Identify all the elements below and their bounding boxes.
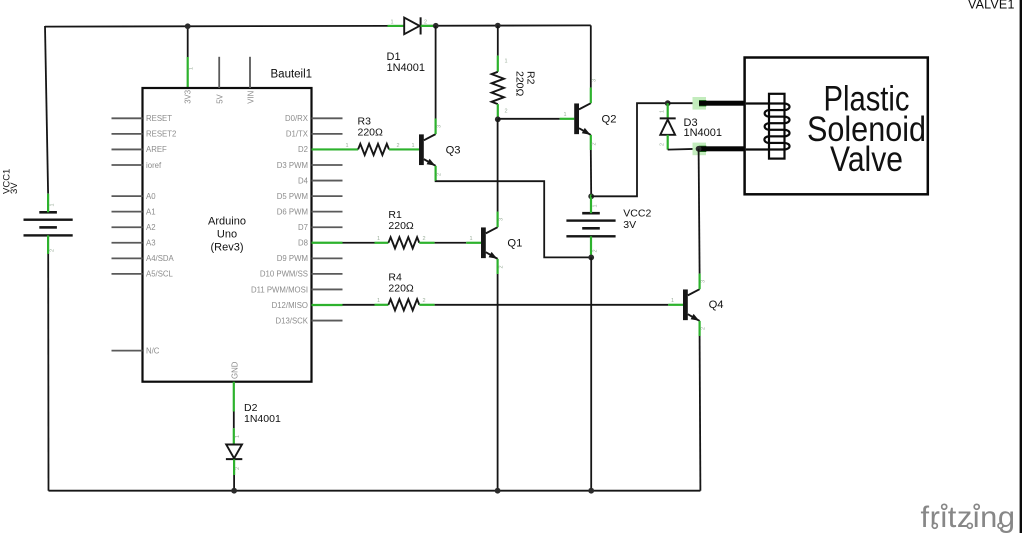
wire top rail to R2 bbox=[497, 26, 499, 56]
pin A1 stub bbox=[112, 211, 143, 213]
svg-text:RESET2: RESET2 bbox=[146, 130, 176, 139]
svg-text:1N4001: 1N4001 bbox=[387, 62, 426, 74]
wire Q2 base from junction bbox=[498, 118, 560, 120]
pin D7 stub bbox=[312, 226, 343, 228]
pin GND leg bbox=[233, 382, 235, 412]
svg-text:2: 2 bbox=[423, 298, 426, 304]
svg-text:3: 3 bbox=[499, 218, 505, 221]
diode D3 leg2 bbox=[667, 135, 669, 150]
node Q1 emitter / ground junction bbox=[495, 488, 501, 494]
svg-text:3: 3 bbox=[437, 125, 443, 128]
svg-text:A0: A0 bbox=[146, 192, 156, 201]
svg-text:A4/SDA: A4/SDA bbox=[146, 254, 175, 263]
wire D2 to ground rail bbox=[233, 475, 235, 491]
wire D12 to R4 bbox=[343, 304, 375, 306]
valve terminal bar 2 bbox=[699, 146, 745, 151]
pin A2 stub bbox=[112, 226, 143, 228]
svg-text:ioref: ioref bbox=[146, 161, 162, 170]
IC Bauteil1 Arduino Uno (Rev3) box bbox=[143, 88, 312, 382]
pin ioref stub bbox=[112, 164, 143, 166]
svg-text:5V: 5V bbox=[216, 93, 225, 103]
valve terminal pad 2 bbox=[693, 143, 707, 156]
node VCC2 ground junction bbox=[588, 488, 594, 494]
svg-text:Valve: Valve bbox=[830, 140, 903, 179]
resistor R4 leg1 bbox=[375, 304, 389, 306]
transistor Q2 bbox=[574, 88, 591, 150]
svg-text:VALVE1: VALVE1 bbox=[968, 0, 1015, 11]
svg-text:1N4001: 1N4001 bbox=[244, 413, 281, 425]
svg-text:2: 2 bbox=[397, 143, 400, 149]
svg-text:RESET: RESET bbox=[146, 114, 172, 123]
diode D1 leg1 bbox=[388, 25, 405, 27]
svg-text:3: 3 bbox=[701, 280, 707, 283]
right border line bbox=[1020, 0, 1022, 533]
resistor R1 leg2 bbox=[419, 242, 434, 244]
pin A4/SDA stub bbox=[112, 257, 143, 259]
diode D3 1N4001 bbox=[660, 117, 676, 119]
transistor Q3 bbox=[419, 119, 436, 181]
svg-text:1: 1 bbox=[377, 236, 380, 242]
pin N/C stub bbox=[112, 350, 143, 352]
svg-text:2: 2 bbox=[660, 143, 666, 146]
pin VIN stub bbox=[249, 57, 251, 88]
solenoid coil L1 bbox=[746, 94, 790, 159]
svg-text:220Ω: 220Ω bbox=[388, 283, 414, 295]
svg-text:D10 PWM/SS: D10 PWM/SS bbox=[260, 270, 308, 279]
svg-text:D0/RX: D0/RX bbox=[285, 114, 309, 123]
svg-text:2: 2 bbox=[437, 173, 443, 176]
wire Q1 collector riser bbox=[497, 119, 499, 211]
svg-text:1: 1 bbox=[235, 435, 241, 438]
node D3 cathode junction bbox=[665, 100, 671, 106]
node valve terminal 2 junction bbox=[696, 146, 702, 152]
node VCC2 bottom junction bbox=[588, 255, 594, 261]
node D2 ground junction bbox=[231, 488, 237, 494]
wire R4 to Q4 base bbox=[435, 304, 669, 306]
svg-text:D1/TX: D1/TX bbox=[286, 130, 309, 139]
svg-text:2: 2 bbox=[424, 19, 427, 25]
svg-text:220Ω: 220Ω bbox=[358, 126, 384, 138]
pin 3V3 green leg bbox=[187, 57, 189, 88]
pin RESET2 stub bbox=[112, 133, 143, 135]
pin D3 PWM stub bbox=[312, 164, 343, 166]
pin D11 PWM/MOSI stub bbox=[312, 288, 343, 290]
bottom ground rail wire bbox=[49, 490, 701, 492]
svg-text:GND: GND bbox=[230, 361, 239, 379]
wire 3V3 to Arduino bbox=[187, 26, 189, 57]
node Q2 emitter junction bbox=[588, 193, 594, 199]
svg-text:1: 1 bbox=[346, 143, 349, 149]
wire Q1 emitter to ground rail bbox=[497, 274, 499, 491]
svg-text:1: 1 bbox=[50, 203, 56, 206]
svg-text:N/C: N/C bbox=[146, 346, 160, 355]
svg-text:Q2: Q2 bbox=[602, 114, 617, 126]
diode D2 leg1 bbox=[233, 428, 235, 444]
resistor R4 220ohm bbox=[388, 299, 419, 310]
pin D13/SCK stub bbox=[312, 320, 343, 322]
resistor R4 leg2 bbox=[419, 304, 434, 306]
wire Q3 emitter to VCC2 bottom bbox=[436, 181, 592, 257]
svg-text:1: 1 bbox=[671, 298, 674, 304]
pin D2 stub bbox=[312, 148, 343, 150]
battery VCC1 bbox=[24, 194, 73, 254]
svg-text:1: 1 bbox=[391, 19, 394, 25]
diode D2 1N4001 bbox=[226, 445, 242, 459]
pin D9 PWM stub bbox=[312, 257, 343, 259]
svg-text:Q4: Q4 bbox=[709, 299, 724, 311]
resistor R2 leg1 bbox=[497, 56, 499, 72]
pin D8 stub bbox=[312, 242, 343, 244]
svg-text:1: 1 bbox=[377, 298, 380, 304]
wire D3 anode to valve terminal 2 bbox=[668, 148, 699, 151]
valve terminal bar 1 bbox=[699, 101, 745, 106]
pin A0 stub bbox=[112, 195, 143, 197]
wire R1 to Q1 bbox=[435, 242, 467, 244]
resistor R3 220ohm bbox=[358, 144, 389, 155]
wire Q4 emitter to ground rail bbox=[699, 336, 702, 491]
wire valve terminal 2 to Q4 collector bbox=[699, 149, 700, 274]
svg-text:D12/MISO: D12/MISO bbox=[272, 301, 308, 310]
svg-text:1: 1 bbox=[412, 143, 415, 149]
node 3V3 junction bbox=[185, 23, 191, 29]
transistor Q1 base leg bbox=[466, 242, 481, 244]
svg-text:1: 1 bbox=[593, 204, 599, 207]
svg-text:220Ω: 220Ω bbox=[388, 220, 414, 232]
svg-text:1: 1 bbox=[189, 67, 195, 70]
svg-text:D8: D8 bbox=[298, 239, 308, 248]
diode D1 bbox=[404, 18, 419, 35]
wire Q2 emitter down bbox=[590, 150, 592, 196]
svg-text:3V: 3V bbox=[9, 182, 20, 194]
svg-text:Q1: Q1 bbox=[507, 238, 522, 250]
node R2/Q2base/Q1coll junction bbox=[495, 116, 501, 122]
svg-text:D7: D7 bbox=[298, 223, 308, 232]
svg-text:A1: A1 bbox=[146, 207, 156, 216]
pin AREF stub bbox=[112, 148, 143, 150]
svg-text:1: 1 bbox=[660, 110, 666, 113]
battery VCC2 bbox=[566, 195, 615, 255]
svg-text:2: 2 bbox=[235, 467, 241, 470]
svg-text:1: 1 bbox=[564, 112, 567, 118]
svg-text:2: 2 bbox=[499, 265, 505, 268]
svg-text:Uno: Uno bbox=[217, 229, 237, 241]
svg-text:D3 PWM: D3 PWM bbox=[277, 161, 308, 170]
wire Q2 emitter junction to valve bbox=[591, 103, 668, 196]
svg-text:D5 PWM: D5 PWM bbox=[277, 192, 308, 201]
svg-text:A2: A2 bbox=[146, 223, 156, 232]
svg-text:D11 PWM/MOSI: D11 PWM/MOSI bbox=[251, 285, 308, 294]
resistor R3 leg2 + wire + Q3 base leg bbox=[389, 148, 419, 150]
svg-text:D9 PWM: D9 PWM bbox=[277, 254, 308, 263]
svg-text:VIN: VIN bbox=[246, 91, 255, 104]
resistor R2 220ohm bbox=[492, 72, 504, 104]
svg-text:1: 1 bbox=[505, 59, 508, 65]
wire left rail lower bbox=[47, 254, 49, 491]
diode D3 leg1 bbox=[667, 103, 669, 118]
svg-text:A5/SCL: A5/SCL bbox=[146, 270, 174, 279]
pin A5/SCL stub bbox=[112, 273, 143, 275]
transistor Q2 base leg bbox=[560, 118, 575, 120]
svg-text:220Ω: 220Ω bbox=[514, 71, 526, 97]
pin D5 PWM stub bbox=[312, 195, 343, 197]
svg-text:3: 3 bbox=[592, 79, 598, 82]
svg-text:(Rev3): (Rev3) bbox=[210, 242, 243, 254]
resistor R1 220ohm bbox=[388, 237, 419, 248]
wire D8 to R1 bbox=[343, 242, 375, 244]
wire VCC2 bottom to ground rail bbox=[590, 257, 592, 490]
valve terminal pad 1 bbox=[693, 97, 707, 110]
svg-text:D13/SCK: D13/SCK bbox=[275, 316, 308, 325]
svg-text:D4: D4 bbox=[298, 176, 309, 185]
svg-text:2: 2 bbox=[423, 236, 426, 242]
top power rail wire bbox=[45, 25, 591, 26]
svg-text:Arduino: Arduino bbox=[208, 216, 246, 228]
resistor R1 leg1 bbox=[375, 242, 389, 244]
svg-text:D6 PWM: D6 PWM bbox=[277, 207, 308, 216]
wire D3 junction to valve terminal 1 bbox=[668, 102, 700, 104]
svg-text:3V: 3V bbox=[623, 219, 636, 231]
node D1-Q3 junction bbox=[433, 23, 439, 29]
svg-text:A3: A3 bbox=[146, 239, 156, 248]
pin D12/MISO stub bbox=[312, 304, 343, 306]
svg-text:2: 2 bbox=[701, 327, 707, 330]
svg-text:D2: D2 bbox=[298, 145, 308, 154]
svg-text:2: 2 bbox=[593, 249, 599, 252]
svg-text:1N4001: 1N4001 bbox=[684, 127, 723, 139]
pin D10 PWM/SS stub bbox=[312, 273, 343, 275]
svg-text:Q3: Q3 bbox=[446, 145, 461, 157]
pin number labels bbox=[50, 19, 707, 470]
svg-text:3V3: 3V3 bbox=[184, 90, 193, 104]
svg-text:2: 2 bbox=[592, 142, 598, 145]
wire GND to D2 bbox=[233, 412, 235, 429]
resistor R2 leg2 bbox=[497, 104, 499, 119]
pin D6 PWM stub bbox=[312, 211, 343, 213]
node R2 top junction bbox=[495, 23, 501, 29]
fritzing watermark bbox=[921, 501, 1016, 533]
pin A3 stub bbox=[112, 242, 143, 244]
svg-text:Bauteil1: Bauteil1 bbox=[271, 69, 313, 81]
transistor Q1 bbox=[481, 212, 498, 274]
pin 5V stub bbox=[218, 57, 220, 88]
wire rail to Q2 collector bbox=[590, 25, 592, 87]
pin RESET stub bbox=[112, 117, 143, 119]
svg-text:2: 2 bbox=[505, 109, 508, 115]
diode D2 leg2 bbox=[233, 459, 235, 475]
solenoid valve VALVE1 box bbox=[745, 58, 928, 195]
wire D1 junction down to Q3 collector bbox=[435, 26, 437, 119]
resistor R3 leg1 bbox=[342, 148, 358, 150]
pin D4 stub bbox=[312, 180, 343, 182]
transistor Q4 bbox=[683, 274, 700, 336]
transistor Q4 base leg bbox=[668, 304, 683, 306]
svg-text:AREF: AREF bbox=[146, 145, 167, 154]
svg-text:2: 2 bbox=[50, 249, 56, 252]
left power rail wire bbox=[45, 26, 48, 194]
diode D1 leg2 bbox=[421, 25, 434, 27]
svg-text:VCC2: VCC2 bbox=[623, 208, 651, 220]
svg-text:1: 1 bbox=[470, 236, 473, 242]
pin D1/TX stub bbox=[312, 133, 343, 135]
pin D0/RX stub bbox=[312, 117, 343, 119]
